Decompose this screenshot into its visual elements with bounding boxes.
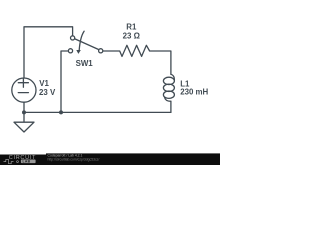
svg-text:R1: R1 <box>126 22 137 31</box>
svg-text:23 Ω: 23 Ω <box>123 31 140 40</box>
svg-text:SW1: SW1 <box>76 59 94 68</box>
svg-text:LAB: LAB <box>23 160 31 164</box>
svg-text:V1: V1 <box>39 79 49 88</box>
svg-text:23 V: 23 V <box>39 88 56 97</box>
svg-text:http://circuitlab.com/czp/3dgc: http://circuitlab.com/czp/3dgc53cz/ <box>48 157 100 161</box>
svg-text:230 mH: 230 mH <box>180 88 208 97</box>
